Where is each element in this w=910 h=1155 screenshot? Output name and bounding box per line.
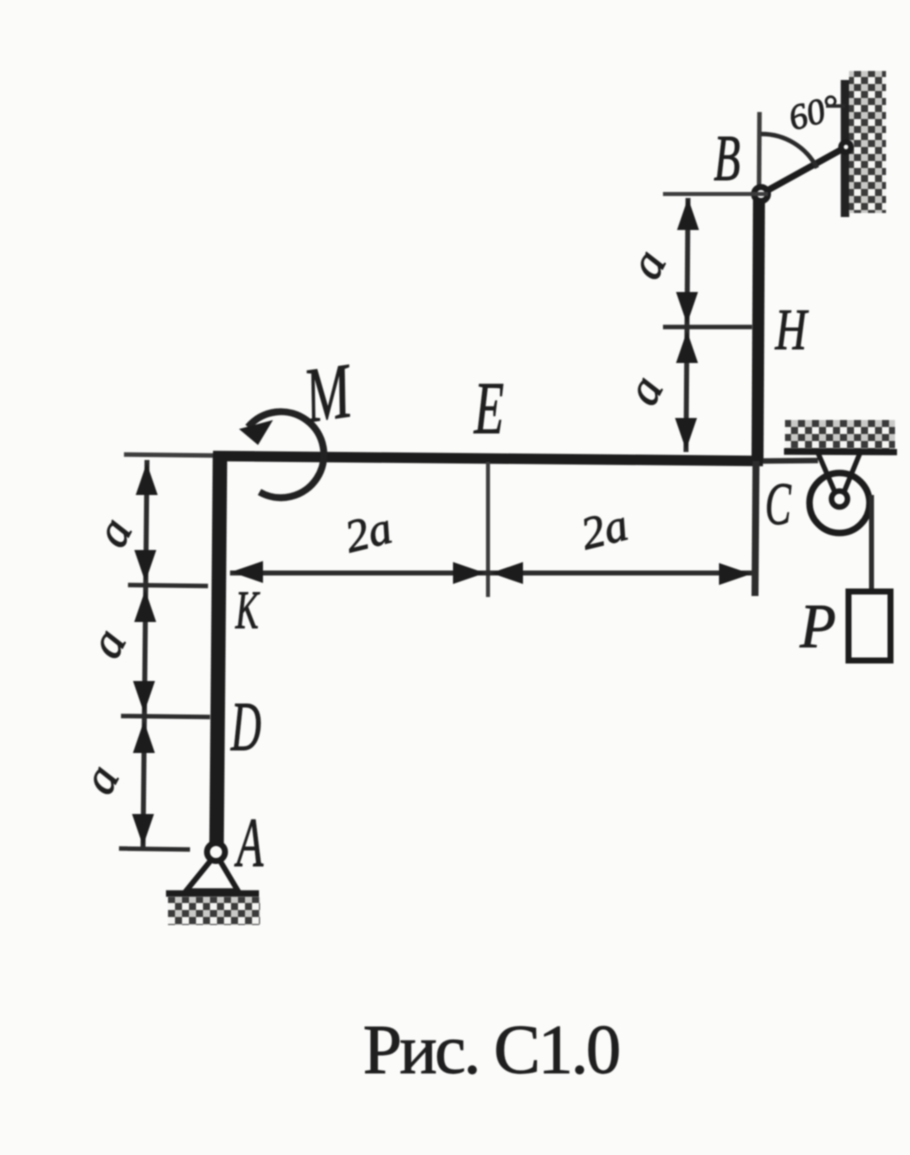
svg-text:a: a xyxy=(72,756,130,802)
svg-text:a: a xyxy=(85,509,143,555)
rod B-wall xyxy=(761,147,846,194)
svg-text:C: C xyxy=(765,471,792,537)
label a right1 xyxy=(619,241,677,287)
moment M arrowhead xyxy=(239,420,273,445)
svg-text:B: B xyxy=(714,122,741,195)
arrow up seg1 xyxy=(136,463,158,495)
arrow up right seg2 xyxy=(676,331,698,363)
pulley hub xyxy=(832,491,848,507)
wall line top right xyxy=(841,80,850,217)
label 2a second xyxy=(576,499,633,560)
label 2a first xyxy=(340,502,397,563)
svg-text:A: A xyxy=(234,803,264,881)
moment M arc xyxy=(248,412,324,498)
label P xyxy=(799,593,836,662)
label a left2 xyxy=(79,620,137,666)
tick at H level xyxy=(663,325,752,330)
extension tick A xyxy=(119,849,190,850)
pin A circle xyxy=(207,843,225,861)
svg-text:60°: 60° xyxy=(784,87,843,139)
beam KC (horizontal member) xyxy=(213,456,763,461)
ground hatching at A xyxy=(168,897,260,925)
svg-text:P: P xyxy=(799,593,836,662)
arrow down right seg2 xyxy=(675,418,697,450)
label E xyxy=(473,367,504,450)
pin A support triangle xyxy=(186,854,238,891)
left column A-corner xyxy=(217,453,221,852)
leader line at 60 xyxy=(826,104,845,108)
svg-text:2a: 2a xyxy=(576,499,633,560)
right dimension line xyxy=(686,198,688,452)
svg-text:H: H xyxy=(774,298,809,362)
ceiling hatching at pulley xyxy=(785,420,895,449)
label a left1 xyxy=(85,509,143,555)
svg-text:M: M xyxy=(298,347,359,440)
pulley wheel xyxy=(810,473,870,533)
tick at B level xyxy=(663,192,768,196)
extension line left of beam xyxy=(124,455,213,456)
arrow up seg2 xyxy=(134,590,156,622)
svg-text:K: K xyxy=(235,580,261,640)
label M xyxy=(298,347,359,440)
extension line above B xyxy=(757,112,762,194)
pulley bracket right xyxy=(842,453,860,497)
extension tick D xyxy=(121,716,210,717)
svg-text:E: E xyxy=(473,367,504,450)
label a left3 xyxy=(72,756,130,802)
arrow down seg1 xyxy=(134,550,156,582)
label C xyxy=(765,471,792,537)
arrow left at E xyxy=(491,562,523,584)
angle arc 60 xyxy=(761,134,817,168)
pin B xyxy=(754,187,768,201)
extension tick K xyxy=(128,585,208,586)
svg-text:2a: 2a xyxy=(340,502,397,563)
arrow right at C xyxy=(719,563,751,585)
extension line below C xyxy=(755,461,756,596)
arrow down seg2 xyxy=(133,681,155,713)
arrow down right seg1 xyxy=(676,292,698,324)
wall hatching xyxy=(849,71,886,213)
arrow down seg3 xyxy=(132,814,154,846)
svg-text:D: D xyxy=(230,689,261,765)
label A xyxy=(234,803,264,881)
label B xyxy=(714,122,741,195)
label K xyxy=(235,580,261,640)
right column B-C xyxy=(758,194,760,462)
arrow right at E xyxy=(453,562,485,584)
extension line at E xyxy=(486,462,490,597)
svg-text:Рис. С1.0: Рис. С1.0 xyxy=(363,1012,621,1089)
ceiling line at pulley xyxy=(784,448,897,455)
label 60deg xyxy=(784,87,843,139)
arrow left at column xyxy=(231,561,263,583)
label a right2 xyxy=(616,367,674,413)
arrow up right seg1 xyxy=(677,198,699,230)
label D xyxy=(230,689,261,765)
left dimension line xyxy=(143,460,147,850)
pulley bracket left xyxy=(818,453,837,497)
svg-text:a: a xyxy=(616,367,674,413)
svg-text:a: a xyxy=(619,241,677,287)
label H xyxy=(774,298,809,362)
horizontal dimension line 2a2a xyxy=(230,571,752,576)
rope from C to pulley xyxy=(763,458,818,464)
weight P box xyxy=(849,592,891,661)
ground line at A xyxy=(166,890,259,897)
svg-text:a: a xyxy=(79,620,137,666)
rope down to weight xyxy=(869,495,874,592)
pin at wall xyxy=(841,142,851,152)
arrow up seg3 xyxy=(133,721,155,753)
